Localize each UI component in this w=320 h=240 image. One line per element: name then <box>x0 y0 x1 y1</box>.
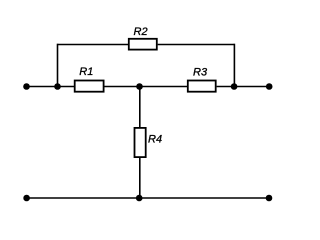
svg-text:R3: R3 <box>193 66 208 78</box>
wire <box>139 158 141 199</box>
svg-text:R4: R4 <box>148 133 162 145</box>
svg-text:R2: R2 <box>134 26 148 38</box>
node <box>136 195 143 202</box>
node <box>136 83 143 90</box>
wire <box>57 44 59 87</box>
resistor R3 <box>188 81 216 92</box>
resistor R4 <box>135 128 146 157</box>
wire <box>58 44 129 46</box>
node <box>231 83 238 90</box>
resistor R2 <box>129 39 157 50</box>
wire <box>26 197 269 199</box>
wire <box>217 86 269 88</box>
svg-text:R1: R1 <box>79 66 93 78</box>
wire <box>105 86 188 88</box>
wire <box>233 44 235 87</box>
node <box>54 83 61 90</box>
wire <box>26 86 74 88</box>
node <box>23 83 30 90</box>
wire <box>158 44 235 46</box>
node <box>266 195 273 202</box>
node <box>23 195 30 202</box>
node <box>266 83 273 90</box>
wire <box>139 87 141 128</box>
resistor R1 <box>75 81 104 92</box>
